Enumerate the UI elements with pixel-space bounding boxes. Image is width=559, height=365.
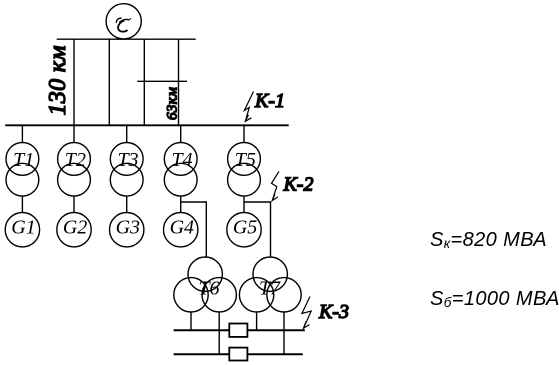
wire: transmission line 1 [73,39,75,125]
svg-text:Т5: Т5 [235,149,256,171]
generator G2 [57,213,91,247]
bus: lower LV busbar [174,353,303,355]
wire T2 to G2 [73,196,75,212]
svg-text:Sк=820 МВА: Sк=820 МВА [430,229,547,251]
wire T4 branch to T6 [181,202,207,257]
system source C [106,4,141,39]
wire T5 branch to T7 [244,202,271,257]
wire T4 to G4 [180,196,182,212]
transformer T4 [164,125,197,196]
svg-text:G5: G5 [233,217,257,239]
bus: main HV busbar [5,124,289,126]
reactor box 2 [229,348,247,361]
wire: tie between line 3 and line 4 [137,80,187,82]
transformer T6 (three-winding) [174,257,237,312]
transformer T1 [6,125,39,196]
wire T1 to G1 [21,196,23,212]
svg-text:Т6: Т6 [198,278,219,300]
generator G4 [164,213,198,247]
svg-text:G2: G2 [63,217,87,239]
wire T6 left winding to upper bus [190,312,192,330]
svg-text:Т1: Т1 [13,149,34,171]
fault K-1 lightning bolt [244,92,253,122]
reactor box 1 [229,324,247,337]
wire T7 right winding to lower bus [283,312,285,354]
svg-text:Sб=1000 МВА: Sб=1000 МВА [430,288,559,310]
transformer T2 [58,125,91,196]
svg-text:63км: 63км [165,87,181,120]
svg-text:G1: G1 [11,217,35,239]
wire T3 to G3 [126,196,128,212]
svg-text:G4: G4 [170,217,194,239]
svg-text:К-1: К-1 [254,90,285,112]
wire T7 left winding to upper bus [256,312,258,330]
fault K-2 lightning bolt [272,172,279,201]
svg-text:130 км: 130 км [45,45,71,115]
transformer T3 [110,125,143,196]
wire T5 to G5 [243,196,245,212]
fault K-3 lightning bolt [302,297,311,329]
generator G3 [110,213,144,247]
bus: upper LV busbar [174,329,305,331]
svg-text:Т2: Т2 [65,149,86,171]
generator G5 [227,213,261,247]
svg-text:К-2: К-2 [283,174,314,196]
generator G1 [5,213,39,247]
wire: transmission line 3 [143,39,145,125]
svg-text:G3: G3 [116,217,140,239]
transformer T7 (three-winding) [239,257,301,312]
svg-text:Т4: Т4 [171,149,192,171]
svg-text:Т7: Т7 [259,278,281,300]
svg-text:Т3: Т3 [117,149,138,171]
wire: transmission line 2 [108,39,110,125]
wire: transmission line 4 [178,39,180,125]
transformer T5 [228,125,261,196]
wire T6 right winding to lower bus [218,312,220,354]
svg-text:К-3: К-3 [318,301,349,323]
wire: top feeder line [57,38,196,40]
